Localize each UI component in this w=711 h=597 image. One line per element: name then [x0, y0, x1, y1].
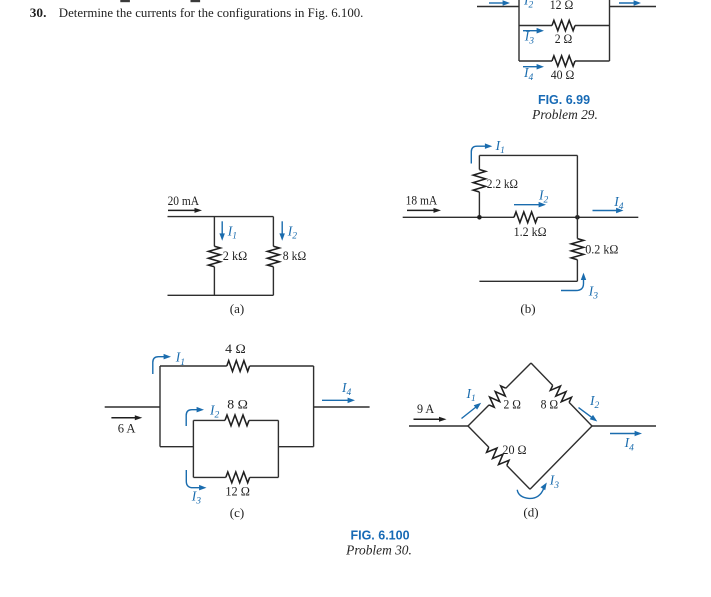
svg-text:I3: I3	[549, 473, 560, 491]
resistor 0.2 kohm (b)	[571, 239, 583, 260]
wire: fig99 left vertical branch	[518, 0, 520, 61]
wire: fig99 left lead	[477, 6, 519, 8]
wire: (b) left branch upper	[478, 155, 480, 169]
resistor 2.2 kohm (b)	[473, 170, 485, 193]
wire: (c) outer right branch	[313, 366, 315, 447]
wire: (d) upper-right upper segment	[531, 363, 553, 385]
svg-text:(b): (b)	[520, 301, 535, 316]
resistor 4 ohm (c)	[227, 361, 250, 372]
wire: (d) lower-left upper segment	[468, 426, 489, 447]
resistor 8 kohm (a)	[267, 246, 279, 266]
current arrow I4 (c)	[322, 399, 349, 401]
wire: (c) top left segment	[160, 365, 227, 367]
resistor 40 ohm (fig99)	[552, 56, 575, 66]
wire: (c) left lead	[105, 406, 160, 408]
current arrow I4 (b)	[593, 210, 618, 212]
svg-text:I4: I4	[341, 380, 352, 398]
wire: fig99 middle branch	[519, 25, 552, 27]
current arrow I2 (d)	[579, 408, 593, 418]
wire: (c) right lead	[314, 406, 370, 408]
resistor 8 ohm (c)	[225, 415, 249, 426]
svg-text:(d): (d)	[523, 505, 538, 520]
svg-text:I1: I1	[227, 223, 237, 241]
svg-text:8 Ω: 8 Ω	[227, 396, 248, 411]
svg-text:I2: I2	[589, 393, 600, 411]
svg-text:FIG. 6.99: FIG. 6.99	[538, 93, 590, 107]
current hook arrow I3 (c)	[186, 470, 200, 488]
svg-text:Determine the currents for the: Determine the currents for the configura…	[59, 5, 364, 20]
svg-text:8 Ω: 8 Ω	[541, 397, 559, 412]
wire: (d) left lead	[409, 425, 468, 427]
svg-text:1.2 kΩ: 1.2 kΩ	[514, 224, 547, 239]
wire: (c) inner box top right	[249, 419, 278, 421]
wire: (d) upper-right lower segment	[569, 402, 592, 426]
svg-text:I2: I2	[287, 223, 298, 241]
current arrow I1 (d)	[462, 407, 477, 419]
current arrow I3 (fig99)	[523, 30, 538, 32]
svg-text:I4: I4	[523, 65, 534, 83]
resistor 2 kohm (a)	[208, 246, 220, 266]
svg-text:9 A: 9 A	[417, 401, 435, 416]
junction node right (b)	[575, 215, 580, 220]
svg-text:2 kΩ: 2 kΩ	[223, 248, 247, 263]
svg-text:I1: I1	[175, 350, 185, 368]
wire: (b) main mid segment	[538, 216, 578, 218]
svg-text:I4: I4	[613, 194, 624, 212]
svg-text:20 Ω: 20 Ω	[502, 442, 526, 457]
wire: (b) bottom	[479, 280, 577, 282]
current hook arrow I1 (b)	[471, 146, 485, 163]
svg-text:I2: I2	[209, 403, 220, 421]
current arrow I1 down (a)	[221, 221, 223, 235]
wire: (c) middle link left	[160, 446, 193, 448]
current arrow out of node (fig99 right)	[619, 2, 635, 4]
wire: (a) top	[168, 216, 274, 218]
wire: (a) right branch upper	[272, 217, 274, 247]
wire: (a) bottom	[168, 294, 274, 296]
svg-text:20 mA: 20 mA	[168, 193, 200, 208]
wire: (b) left branch lower	[478, 192, 480, 217]
wire: (b) main left segment	[403, 216, 514, 218]
svg-text:2.2 kΩ: 2.2 kΩ	[487, 176, 518, 191]
resistor 2 ohm (fig99)	[552, 20, 575, 30]
wire: (c) inner box top left	[193, 419, 225, 421]
current arrow I4 (d)	[610, 433, 636, 435]
current arrow I4 (fig99)	[523, 66, 538, 68]
current arrow 6 A (c)	[111, 417, 136, 419]
current arrow 9 A (d)	[414, 418, 441, 420]
wire: (a) left branch lower	[213, 267, 215, 296]
svg-text:(c): (c)	[230, 505, 244, 520]
wire: fig99 right vertical branch	[609, 0, 611, 61]
svg-text:Problem 29.: Problem 29.	[531, 107, 598, 122]
svg-text:I2: I2	[523, 0, 534, 11]
svg-text:40 Ω: 40 Ω	[551, 67, 575, 82]
current arrow I2 down (a)	[281, 221, 283, 235]
wire: (b) right branch upper	[576, 155, 578, 238]
svg-text:I4: I4	[624, 435, 635, 453]
wire: (c) top right segment	[250, 365, 314, 367]
wire: (b) box top	[479, 154, 577, 156]
current arrow 20 mA (a)	[168, 209, 196, 211]
wire: (b) main right segment	[577, 216, 638, 218]
current arrow into node (fig99 left)	[489, 2, 504, 4]
resistor 8 ohm (d)	[550, 385, 571, 402]
wire: (c) middle link right	[278, 446, 313, 448]
wire: fig99 bottom branch	[519, 60, 552, 62]
current arrow I2 (b)	[514, 204, 540, 206]
current arrow 18 mA (b)	[407, 209, 435, 211]
svg-text:4 Ω: 4 Ω	[225, 341, 246, 356]
resistor 20 ohm (d)	[487, 447, 509, 465]
cut-off text remnant left (page top)	[120, 0, 130, 2]
wire: (c) inner box bottom right	[250, 476, 279, 478]
svg-text:6 A: 6 A	[118, 421, 136, 436]
svg-text:12 Ω: 12 Ω	[550, 0, 574, 12]
svg-text:I3: I3	[588, 283, 599, 301]
wire: (c) outer left branch	[159, 366, 161, 447]
svg-text:FIG. 6.100: FIG. 6.100	[350, 529, 409, 543]
wire: (d) upper-left lower segment	[468, 405, 489, 426]
current arc arrow I3 (d)	[517, 489, 544, 499]
wire: (c) inner box left vertical	[192, 420, 194, 477]
svg-text:18 mA: 18 mA	[406, 193, 438, 208]
svg-text:2 Ω: 2 Ω	[555, 31, 573, 46]
wire: (a) left branch upper	[213, 217, 215, 247]
svg-text:0.2 kΩ: 0.2 kΩ	[585, 242, 618, 257]
resistor 1.2 kohm (b)	[514, 212, 538, 223]
wire: (b) right branch lower	[576, 260, 578, 282]
svg-text:30.: 30.	[30, 5, 47, 20]
svg-text:(a): (a)	[230, 301, 244, 316]
resistor 2 ohm (d)	[489, 386, 506, 407]
wire: (a) right branch lower	[272, 267, 274, 296]
svg-text:Problem 30.: Problem 30.	[345, 542, 412, 557]
wire: (d) lower-right side	[530, 426, 592, 489]
svg-text:12 Ω: 12 Ω	[225, 483, 250, 498]
current hook arrow I1 (c)	[153, 357, 165, 374]
svg-text:I3: I3	[191, 488, 202, 506]
svg-text:I1: I1	[466, 386, 476, 404]
wire: (d) lower-left lower segment	[507, 466, 530, 490]
svg-text:2 Ω: 2 Ω	[504, 397, 521, 412]
svg-text:8 kΩ: 8 kΩ	[283, 248, 306, 263]
current hook arrow I2 (c)	[186, 410, 197, 426]
wire: (d) right lead	[592, 425, 656, 427]
resistor 12 ohm (c)	[226, 472, 250, 483]
wire: fig99 right lead	[610, 6, 657, 8]
wire: (c) inner box right vertical	[277, 420, 279, 477]
cut-off text remnant right (page top)	[191, 0, 201, 2]
wire: (d) upper-left upper segment	[506, 363, 531, 388]
svg-text:I1: I1	[495, 138, 505, 156]
wire: (c) inner box bottom left	[193, 476, 225, 478]
junction node left (b)	[477, 215, 482, 220]
current hook arrow I3 (b)	[561, 280, 584, 291]
